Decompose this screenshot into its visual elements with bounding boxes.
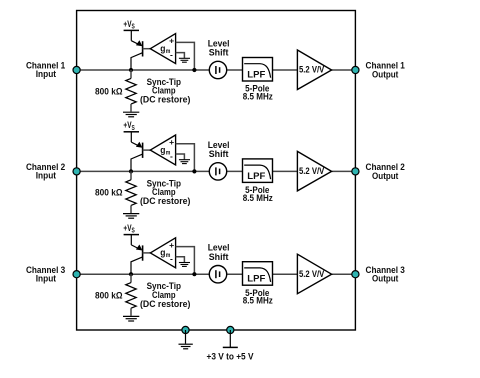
- wire LPF to amplifier channel 1: [273, 69, 298, 71]
- pin channel 1 input: [73, 66, 80, 73]
- wire channel 2 input line: [77, 170, 243, 172]
- level shift block channel 1: [208, 38, 230, 78]
- ground symbol at GND pin: [179, 330, 193, 349]
- transistor Q2 sync-tip clamp PNP: [131, 142, 143, 172]
- LPF block 5-pole 8.5 MHz channel 2: [243, 159, 274, 203]
- svg-text:8.5 MHz: 8.5 MHz: [243, 92, 273, 102]
- svg-text:(DC restore): (DC restore): [140, 196, 190, 206]
- level shift block channel 2: [208, 140, 230, 180]
- svg-text:+: +: [169, 240, 174, 250]
- wire LPF to amplifier channel 2: [273, 170, 298, 172]
- ground at gm - input channel 3: [176, 257, 190, 267]
- power +VS channel 2: [123, 120, 139, 142]
- op-amp U1 gm transconductance amp: [143, 34, 176, 64]
- label channel 1 output: [366, 61, 405, 80]
- LPF block 5-pole 8.5 MHz channel 3: [243, 262, 274, 306]
- label sync-tip clamp channel 3: [140, 281, 190, 309]
- svg-text:Output: Output: [372, 171, 398, 181]
- svg-text:Shift: Shift: [209, 48, 229, 58]
- op-amp U3 gm transconductance amp: [143, 238, 176, 268]
- wire channel 1 input line: [77, 69, 243, 71]
- label sync-tip clamp channel 1: [140, 77, 190, 105]
- wire amplifier to output channel 1: [332, 69, 356, 71]
- pin VCC +3V to +5V: [227, 326, 234, 333]
- svg-text:800 kΩ: 800 kΩ: [95, 291, 123, 301]
- wire gm + input feedback channel 2: [176, 144, 195, 172]
- junction node clamp channel 1: [129, 68, 133, 72]
- svg-text:Output: Output: [372, 274, 398, 284]
- resistor R2 800 kOhm: [95, 171, 136, 213]
- svg-text:(DC restore): (DC restore): [140, 95, 190, 105]
- svg-text:+: +: [169, 36, 174, 46]
- resistor R3 800 kOhm: [95, 274, 136, 316]
- pin channel 2 input: [73, 168, 80, 175]
- wire amplifier to output channel 2: [332, 170, 356, 172]
- op-amp A3 output amplifier 5.2 V/V: [297, 254, 331, 294]
- svg-text:800 kΩ: 800 kΩ: [95, 188, 123, 198]
- label channel 2 input: [26, 162, 65, 181]
- label supply voltage: [207, 351, 255, 361]
- wire channel 3 input line: [77, 273, 243, 275]
- svg-text:8.5 MHz: 8.5 MHz: [243, 296, 273, 306]
- ground at gm - input channel 1: [176, 53, 190, 63]
- LPF block 5-pole 8.5 MHz channel 1: [243, 58, 274, 102]
- power +VS channel 3: [123, 223, 139, 245]
- junction node clamp channel 2: [129, 169, 133, 173]
- svg-text:+3 V to +5 V: +3 V to +5 V: [207, 351, 255, 361]
- junction node feedback channel 3: [192, 272, 196, 276]
- wire gm + input feedback channel 1: [176, 42, 195, 70]
- pin channel 3 input: [73, 271, 80, 278]
- pin channel 3 output: [352, 271, 359, 278]
- svg-text:Input: Input: [36, 69, 56, 79]
- wire gm + input feedback channel 3: [176, 247, 195, 275]
- svg-text:Shift: Shift: [209, 149, 229, 159]
- power +VS channel 1: [123, 19, 139, 41]
- svg-text:5.2 V/V: 5.2 V/V: [299, 65, 325, 75]
- op-amp A2 output amplifier 5.2 V/V: [297, 151, 331, 191]
- pin channel 2 output: [352, 168, 359, 175]
- ground below resistor R1: [123, 112, 139, 117]
- svg-text:800 kΩ: 800 kΩ: [95, 86, 123, 96]
- wire LPF to amplifier channel 3: [273, 273, 298, 275]
- op-amp A1 output amplifier 5.2 V/V: [297, 50, 331, 90]
- svg-text:Shift: Shift: [209, 252, 229, 262]
- svg-text:-: -: [170, 151, 173, 161]
- junction node feedback channel 2: [192, 169, 196, 173]
- svg-text:-: -: [170, 49, 173, 59]
- supply bar +3V to +5V: [223, 330, 238, 347]
- svg-text:Output: Output: [372, 69, 398, 79]
- svg-text:5.2 V/V: 5.2 V/V: [299, 166, 325, 176]
- label channel 3 input: [26, 265, 65, 284]
- junction node clamp channel 3: [129, 272, 133, 276]
- svg-text:LPF: LPF: [247, 171, 265, 181]
- ground below resistor R2: [123, 214, 139, 219]
- ground below resistor R3: [123, 316, 139, 321]
- label sync-tip clamp channel 2: [140, 178, 190, 206]
- label channel 1 input: [26, 61, 65, 80]
- ground at gm - input channel 2: [176, 154, 190, 164]
- transistor Q3 sync-tip clamp PNP: [131, 245, 143, 275]
- pin channel 1 output: [352, 66, 359, 73]
- svg-text:-: -: [170, 254, 173, 264]
- svg-text:5.2 V/V: 5.2 V/V: [299, 269, 325, 279]
- svg-text:LPF: LPF: [247, 274, 265, 284]
- label channel 2 output: [366, 162, 405, 181]
- svg-text:Input: Input: [36, 171, 56, 181]
- svg-text:LPF: LPF: [247, 70, 265, 80]
- transistor Q1 sync-tip clamp PNP: [131, 40, 143, 70]
- svg-text:Input: Input: [36, 273, 56, 283]
- svg-text:(DC restore): (DC restore): [140, 299, 190, 309]
- wire amplifier to output channel 3: [332, 273, 356, 275]
- svg-text:+: +: [169, 137, 174, 147]
- op-amp U2 gm transconductance amp: [143, 135, 176, 165]
- svg-text:8.5 MHz: 8.5 MHz: [243, 193, 273, 203]
- pin GND: [182, 326, 189, 333]
- resistor R1 800 kOhm: [95, 70, 136, 112]
- label channel 3 output: [366, 265, 405, 284]
- level shift block channel 3: [208, 243, 230, 283]
- junction node feedback channel 1: [192, 68, 196, 72]
- chip boundary box: [77, 11, 356, 331]
